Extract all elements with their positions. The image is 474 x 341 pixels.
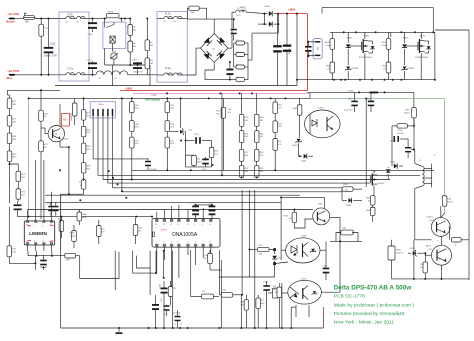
resistor R05 horizontal xyxy=(221,292,233,297)
svg-text:Q808: Q808 xyxy=(363,35,369,37)
svg-text:2493: 2493 xyxy=(244,155,248,157)
capacitor C903a xyxy=(394,136,396,142)
svg-text:R9: R9 xyxy=(204,258,206,260)
wire sense common xyxy=(247,43,249,80)
capacitor C805 bulk 1 xyxy=(273,45,282,47)
svg-text:DNA1005A: DNA1005A xyxy=(172,232,198,238)
svg-text:ZD802: ZD802 xyxy=(408,68,415,70)
svg-text:K2606: K2606 xyxy=(378,183,385,185)
svg-text:820uF: 820uF xyxy=(289,48,291,54)
wire verticals lower middle xyxy=(190,250,192,297)
relay RL1 box xyxy=(103,22,126,48)
resistor R44 10A xyxy=(128,25,133,36)
diode D902 xyxy=(394,163,397,168)
capacitor C915 220u50V xyxy=(145,161,151,163)
resistor R472 1503 xyxy=(7,116,12,127)
capacitor C471 xyxy=(14,204,22,206)
resistor R470a 1003 xyxy=(130,102,135,113)
svg-text:R23: R23 xyxy=(273,289,276,291)
wire LM393 area verticals xyxy=(27,210,29,213)
resistor R1009 xyxy=(297,105,302,116)
wire xyxy=(414,189,416,240)
svg-text:Q802: Q802 xyxy=(420,35,426,37)
diode D408 xyxy=(304,154,307,159)
svg-text:C1Q13: C1Q13 xyxy=(426,216,433,218)
resistor R45 10A xyxy=(128,41,133,52)
wire bus y175 xyxy=(98,174,420,176)
resistor col4 r4 xyxy=(239,165,244,177)
heatsink HS marker red xyxy=(62,114,70,127)
svg-text:2503: 2503 xyxy=(259,136,263,138)
varistor PH1 xyxy=(39,24,44,36)
svg-text:5: 5 xyxy=(187,242,188,244)
wire vertical x366 xyxy=(365,99,367,187)
svg-text:+380 StandBy: +380 StandBy xyxy=(144,98,160,101)
resistor R495 3913 xyxy=(81,126,86,137)
wire left feed xyxy=(7,89,60,91)
connector CN801 blue xyxy=(313,39,322,59)
resistor R136 5913 xyxy=(192,155,197,166)
svg-text:OO O: OO O xyxy=(236,15,241,17)
wire primary return rail xyxy=(55,85,297,87)
wire bus y217 xyxy=(18,216,153,218)
svg-text:5W1Q: 5W1Q xyxy=(197,161,203,163)
IC U9 DNA1005A xyxy=(152,218,220,247)
svg-text:3F13: 3F13 xyxy=(244,152,248,154)
svg-text:J72: J72 xyxy=(79,182,82,184)
resistor R122 2T3 xyxy=(97,226,102,237)
resistor col6 r2 xyxy=(273,121,278,133)
svg-text:R068: R068 xyxy=(70,233,75,235)
wire rail c xyxy=(28,97,310,99)
wire DNA top pins up xyxy=(156,212,158,219)
svg-text:C945: C945 xyxy=(318,204,324,206)
svg-text:4.7ohm: 4.7ohm xyxy=(381,45,388,47)
svg-text:~AC-275V: ~AC-275V xyxy=(7,12,19,16)
resistor R476 241 xyxy=(39,110,44,121)
resistor R4b 0.2 xyxy=(236,53,245,57)
wire verticals down from bus xyxy=(241,190,243,295)
wire green standby rail xyxy=(310,98,445,100)
resistor R76 xyxy=(65,253,76,258)
wire bottom right rail xyxy=(392,278,470,280)
svg-text:C1E1: C1E1 xyxy=(50,43,56,45)
svg-text:+380V: +380V xyxy=(125,87,133,90)
wire bridge top to L_APFC xyxy=(214,18,232,20)
wire xyxy=(187,18,214,20)
svg-text:3F1B: 3F1B xyxy=(259,152,264,154)
resistor R927 0441 xyxy=(256,298,261,309)
wire xyxy=(444,206,446,213)
wire xyxy=(105,64,150,66)
svg-text:0.2: 0.2 xyxy=(236,64,239,66)
svg-text:2: 2 xyxy=(34,240,35,242)
svg-text:0.2: 0.2 xyxy=(236,40,239,42)
wire xyxy=(9,257,35,264)
resistor R9011 xyxy=(133,225,138,236)
transistor Q912 C945 xyxy=(313,208,330,225)
wire bus y202 xyxy=(45,201,281,203)
wire bus y170 xyxy=(132,169,434,171)
svg-text:9: 9 xyxy=(194,224,195,226)
svg-text:680n 275V: 680n 275V xyxy=(134,72,144,74)
svg-text:200k: 200k xyxy=(398,130,402,132)
svg-text:LM393N: LM393N xyxy=(29,231,47,236)
capacitor C908 xyxy=(152,304,159,306)
svg-text:FL2a: FL2a xyxy=(165,67,171,70)
resistor R901 56ohm xyxy=(412,107,417,118)
connector CN UF0x blue header xyxy=(90,102,115,118)
svg-text:D90B: D90B xyxy=(346,205,352,207)
svg-text:A973: A973 xyxy=(426,245,432,248)
wire lower-mid nest xyxy=(133,251,157,273)
svg-text:+380V: +380V xyxy=(288,8,296,12)
resistor R912b xyxy=(273,288,279,298)
wire C945 collector xyxy=(281,197,324,208)
resistor R931 xyxy=(341,230,354,235)
resistor R471 1503 xyxy=(7,98,12,109)
resistor R921 40A xyxy=(257,247,269,251)
svg-text:0.2: 0.2 xyxy=(236,52,239,54)
wire long vertical x222 xyxy=(221,93,223,175)
svg-text:R4d: R4d xyxy=(149,60,153,62)
svg-text:220u 35V: 220u 35V xyxy=(344,109,353,111)
capacitor C904 xyxy=(405,147,411,149)
svg-text:R05b: R05b xyxy=(277,123,282,125)
diode D810 body xyxy=(370,46,374,49)
diode D908 xyxy=(348,198,351,203)
svg-text:R21: R21 xyxy=(259,245,262,247)
resistor R4c 0.2 xyxy=(236,65,245,69)
svg-text:2503: 2503 xyxy=(259,155,263,157)
wire xyxy=(89,18,104,20)
svg-text:T8A: T8A xyxy=(25,21,30,24)
wire xyxy=(277,14,279,33)
wire bottom rail xyxy=(61,327,324,329)
wire relay coil drive xyxy=(112,65,114,86)
resistor col5 3F1Bp 2503 r1 xyxy=(254,114,259,126)
capacitor C142 xyxy=(202,159,209,161)
capacitor C806 bulk 2 xyxy=(283,45,292,47)
svg-text:6: 6 xyxy=(195,242,196,244)
resistor C94 horizontal xyxy=(202,294,214,299)
svg-text:4.7ohm: 4.7ohm xyxy=(325,45,332,47)
svg-text:R27: R27 xyxy=(260,300,263,302)
svg-text:HS: HS xyxy=(63,119,67,122)
capacitor C1h2 upper xyxy=(88,22,97,24)
resistor R906 56ohm green feed xyxy=(442,196,447,207)
wire AC to bridge left xyxy=(187,48,200,75)
resistor col4 r2 xyxy=(239,131,244,143)
wire loop lower left xyxy=(79,256,81,279)
svg-text:2493: 2493 xyxy=(244,120,248,122)
resistor R481 1503 xyxy=(7,133,12,144)
resistor col5 r2 xyxy=(254,131,259,143)
svg-text:10D471K: 10D471K xyxy=(71,112,73,121)
resistor col5 r4 xyxy=(254,165,259,177)
svg-text:ZD803: ZD803 xyxy=(352,68,359,70)
svg-text:PCB DC-1778: PCB DC-1778 xyxy=(334,294,365,300)
fuse F1 T8A xyxy=(24,16,36,20)
svg-text:0.2ohms: 0.2ohms xyxy=(396,252,403,254)
svg-text:1K2: 1K2 xyxy=(275,292,278,294)
bridge rectifier BR1 xyxy=(200,34,228,63)
capacitor C5 startup xyxy=(40,260,47,262)
svg-text:13: 13 xyxy=(163,224,165,226)
svg-text:+380: +380 xyxy=(151,94,157,97)
svg-text:R12: R12 xyxy=(273,286,276,288)
wire right output stage xyxy=(330,240,362,242)
resistor R912 242 xyxy=(292,212,297,223)
svg-text:16: 16 xyxy=(209,224,211,226)
wire bus y188 xyxy=(113,187,343,189)
wire loop bottom xyxy=(186,166,212,168)
junction dots on buses xyxy=(59,169,61,171)
wire transformer primary feed xyxy=(414,150,416,164)
resistor R813 4.7ohm xyxy=(330,38,335,49)
resistor R46 10A xyxy=(145,40,150,51)
svg-text:7: 7 xyxy=(202,242,203,244)
svg-text:3F13: 3F13 xyxy=(244,168,248,170)
diode D903 xyxy=(386,170,391,173)
wire xyxy=(163,300,165,328)
resistor R904 56k xyxy=(342,187,353,192)
svg-text:R05c: R05c xyxy=(277,141,281,143)
svg-text:C1h2: C1h2 xyxy=(88,34,94,36)
svg-text:Made by pcdocstar ( pcdocstar.: Made by pcdocstar ( pcdocstar.com ) xyxy=(334,303,415,309)
wire bottom left vertical xyxy=(60,194,62,328)
svg-text:3F1B: 3F1B xyxy=(259,168,264,170)
wire xyxy=(40,90,42,110)
resistor R811 10k xyxy=(386,62,391,73)
resistor R470e 1003 xyxy=(165,121,170,132)
resistor R494 3913 xyxy=(81,110,86,121)
svg-text:7n: 7n xyxy=(181,324,183,326)
svg-text:14: 14 xyxy=(155,224,157,226)
resistor col6 4K702 r1 xyxy=(273,102,278,114)
resistor R928 0491 xyxy=(244,300,249,311)
svg-text:R70c: R70c xyxy=(134,140,139,142)
resistor R816 4.7ohm xyxy=(386,38,391,49)
svg-text:8: 8 xyxy=(202,224,203,226)
svg-text:R060: R060 xyxy=(58,219,63,221)
capacitor C1h2 lower xyxy=(88,62,97,64)
wire C945 emitter right xyxy=(330,216,340,218)
svg-text:0441: 0441 xyxy=(260,303,264,305)
svg-text:12: 12 xyxy=(170,224,172,226)
svg-text:561: 561 xyxy=(228,112,231,114)
svg-text:L_APFC: L_APFC xyxy=(237,7,246,10)
svg-text:New York - Minsk, Jan 2011: New York - Minsk, Jan 2011 xyxy=(334,320,395,326)
wire header pins staircase xyxy=(93,116,148,159)
resistor R982 3913 xyxy=(81,163,86,174)
wire cell2 feed xyxy=(390,32,392,37)
svg-text:4: 4 xyxy=(178,242,179,244)
wire rail b magenta xyxy=(133,92,310,94)
EMI filter FL2 box xyxy=(157,12,187,83)
resistor R482 1503 xyxy=(7,151,12,162)
svg-text:3F1B: 3F1B xyxy=(259,133,264,135)
capacitor C5 PFC xyxy=(226,69,233,71)
svg-text:4702: 4702 xyxy=(277,126,281,128)
thermistor TH1 xyxy=(107,14,120,18)
resistor col5 r3 xyxy=(254,149,259,161)
wire opto connections xyxy=(281,249,286,251)
svg-text:R70c: R70c xyxy=(169,140,174,142)
svg-text:R4c: R4c xyxy=(149,42,153,44)
svg-text:2493: 2493 xyxy=(244,136,248,138)
capacitor C PFC input xyxy=(231,29,237,31)
resistor R474 xyxy=(16,189,21,200)
resistor R9068 xyxy=(72,231,77,242)
resistor R4a 0.2 xyxy=(236,41,245,45)
resistor R908 0.2ohms xyxy=(388,246,395,260)
svg-text:R36: R36 xyxy=(197,159,200,161)
svg-text:R22: R22 xyxy=(173,288,176,290)
svg-text:0.2: 0.2 xyxy=(236,77,239,79)
svg-text:R903: R903 xyxy=(366,198,371,200)
transistor Q75 xyxy=(48,126,64,142)
diode D zener in opto xyxy=(310,249,316,253)
svg-text:C141: C141 xyxy=(194,134,200,136)
svg-text:7n: 7n xyxy=(174,324,176,326)
svg-text:FL2b: FL2b xyxy=(165,13,171,16)
svg-text:STW20NM50Z: STW20NM50Z xyxy=(359,57,373,59)
svg-text:3F13: 3F13 xyxy=(244,133,248,135)
svg-text:(H): (H) xyxy=(278,258,281,260)
resistor R903 10k xyxy=(370,196,375,206)
svg-text:C1h2: C1h2 xyxy=(87,60,93,62)
svg-text:R06A: R06A xyxy=(82,213,87,216)
diode D803 boost lower xyxy=(269,21,272,26)
svg-text:56ohm: 56ohm xyxy=(447,202,453,204)
svg-text:2503: 2503 xyxy=(259,171,263,173)
wire bus y179 xyxy=(103,179,390,181)
wire green left vertical xyxy=(28,98,30,216)
wire bus y209 xyxy=(28,209,313,211)
wire +380V rail red xyxy=(120,90,307,92)
relay contact xyxy=(106,25,114,28)
svg-text:2kV/W2: 2kV/W2 xyxy=(397,133,404,135)
capacitor C807 snubber xyxy=(305,46,312,48)
resistor col4 3F13p 2493 r1 xyxy=(239,114,244,126)
wire base join xyxy=(415,239,432,241)
svg-text:Blue: Blue xyxy=(7,76,13,80)
svg-text:UF0x: UF0x xyxy=(99,104,105,106)
resistor R470f 1003 xyxy=(165,137,170,148)
resistor R473 xyxy=(16,171,21,182)
resistor R9060 xyxy=(59,221,64,232)
wire bus y183 xyxy=(108,182,370,184)
svg-text:PH: PH xyxy=(44,28,47,30)
svg-text:~AC-275V: ~AC-275V xyxy=(7,69,19,73)
resistor R923 1K2 xyxy=(277,287,282,298)
svg-text:FL7a: FL7a xyxy=(68,67,74,70)
resistor R124 561 xyxy=(221,107,226,118)
resistor R496 3913 xyxy=(81,143,86,154)
svg-text:Brown: Brown xyxy=(6,20,14,24)
svg-text:C92: C92 xyxy=(204,255,207,257)
svg-text:D807: D807 xyxy=(403,38,409,40)
ground symbol xyxy=(118,328,120,332)
wire switch rail xyxy=(330,31,435,33)
svg-text:3F13: 3F13 xyxy=(244,117,248,119)
svg-text:B BG1: B BG1 xyxy=(161,230,168,232)
wire right edge vertical xyxy=(468,30,470,280)
svg-text:2493: 2493 xyxy=(244,171,248,173)
wire top rail right section xyxy=(322,7,433,9)
svg-text:Q902: Q902 xyxy=(372,171,378,173)
svg-text:2kV/W2: 2kV/W2 xyxy=(390,141,396,143)
resistor R470b 1003 xyxy=(130,121,135,132)
zener D912 xyxy=(272,256,277,259)
IC U4 LM393N xyxy=(24,221,54,245)
resistor R470d 1003 xyxy=(165,102,170,113)
zener ZD803 xyxy=(345,67,351,71)
resistor R47 10A xyxy=(145,58,150,69)
resistor R936 5w1 xyxy=(423,262,428,273)
svg-text:10k: 10k xyxy=(327,68,330,70)
wire +380V down xyxy=(306,14,308,91)
svg-text:5e1: 5e1 xyxy=(420,267,423,269)
svg-text:56ohm: 56ohm xyxy=(404,112,410,114)
svg-text:D803: D803 xyxy=(264,6,270,8)
svg-text:C721: C721 xyxy=(191,203,196,205)
svg-text:Therm: Therm xyxy=(108,11,114,14)
capacitor C473 xyxy=(48,206,54,208)
resistor R470c 1003 xyxy=(130,137,135,148)
diode D809 body xyxy=(426,46,430,49)
wire bridge bottom rail xyxy=(205,70,232,80)
resistor col6 r3 xyxy=(273,139,278,151)
svg-text:3: 3 xyxy=(43,240,44,242)
zener Z1 xyxy=(180,129,184,135)
capacitor C1h2b 680n 275V xyxy=(133,62,142,64)
svg-text:C1TKC04: C1TKC04 xyxy=(172,313,180,315)
svg-text:C1h2: C1h2 xyxy=(132,60,138,62)
resistor R40 4R0 xyxy=(189,6,200,10)
resistor R924 vertical xyxy=(208,253,213,264)
resistor R129 151 xyxy=(209,147,214,158)
svg-text:4702: 4702 xyxy=(277,107,281,109)
capacitor C1E1 2x680n 275V xyxy=(44,47,54,49)
svg-text:D40B: D40B xyxy=(301,161,307,163)
zener in opto IC907 xyxy=(312,291,318,295)
svg-text:11: 11 xyxy=(177,224,179,226)
resistor R4d 0.2 xyxy=(236,78,245,82)
svg-text:3F1B: 3F1B xyxy=(259,117,264,119)
zener ZD802 xyxy=(401,67,407,71)
svg-text:10k: 10k xyxy=(368,200,371,202)
svg-text:2: 2 xyxy=(163,242,164,244)
wire xyxy=(114,270,116,290)
wire box outline lower mid xyxy=(98,252,119,279)
wire xyxy=(35,18,59,20)
svg-text:2503: 2503 xyxy=(259,120,263,122)
wire bus y192 xyxy=(122,191,342,193)
svg-text:6: 6 xyxy=(42,225,43,227)
svg-text:2x680n 275V: 2x680n 275V xyxy=(43,56,57,58)
resistor col4 r3 xyxy=(239,149,244,161)
svg-text:56k: 56k xyxy=(345,190,348,192)
svg-text:Delta DPS-470 AB A 500w: Delta DPS-470 AB A 500w xyxy=(334,284,411,291)
zener ZD401 xyxy=(295,139,301,143)
svg-text:FL7b: FL7b xyxy=(68,13,74,16)
svg-text:B41B: B41B xyxy=(71,235,76,237)
svg-text:RCN: RCN xyxy=(12,249,17,251)
wire bus y195 xyxy=(45,194,300,196)
resistor R922 xyxy=(168,287,173,297)
